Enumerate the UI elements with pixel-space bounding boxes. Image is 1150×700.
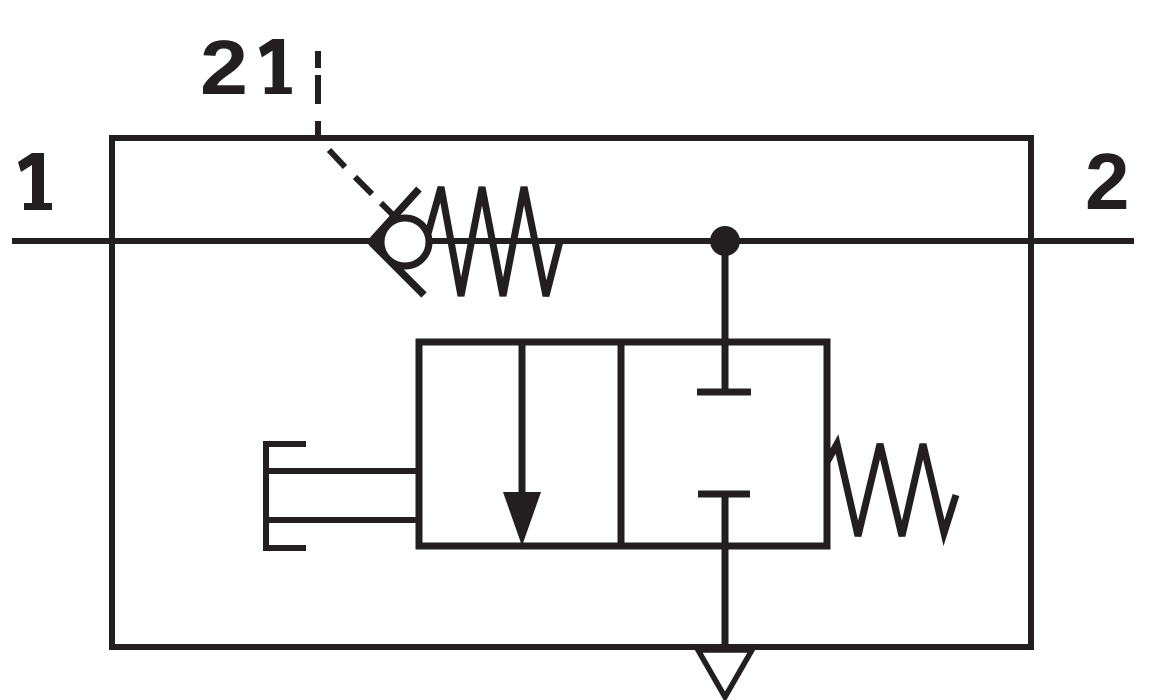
svg-text:2: 2 <box>200 25 248 111</box>
check valve seat wedge <box>366 219 394 265</box>
pilot line 21 (diagonal dashed to check valve) <box>329 150 396 218</box>
manual actuator cap top flange <box>263 441 306 447</box>
exhaust silencer triangle <box>698 650 752 697</box>
manual actuator lower rod <box>266 517 419 523</box>
blocked port lower stem / exhaust wire <box>722 497 729 647</box>
return spring <box>827 444 956 536</box>
wire node to valve <box>722 241 729 342</box>
manual actuator cap bottom flange <box>263 545 306 551</box>
valve body box <box>419 342 827 546</box>
svg-text:2: 2 <box>1085 137 1130 226</box>
manual actuator cap bar <box>263 441 269 551</box>
wire port1 to port2 (main line) <box>12 238 1134 244</box>
check valve seat upper line <box>371 189 419 242</box>
check valve seat lower line <box>371 242 424 295</box>
check valve spring <box>426 187 560 296</box>
manual actuator upper rod <box>266 468 419 474</box>
enclosure box <box>112 138 1031 647</box>
blocked port upper stem <box>722 342 729 390</box>
flow path arrowhead <box>503 492 541 546</box>
flow path arrow shaft <box>519 342 526 500</box>
node junction dot <box>710 226 740 256</box>
blocked port lower bar <box>698 491 750 498</box>
valve position divider <box>618 342 625 546</box>
pilot line 21 (vertical dashed) <box>315 51 321 136</box>
check valve poppet ball <box>381 218 429 266</box>
port 1 label <box>18 153 52 210</box>
blocked port upper bar <box>697 389 751 396</box>
